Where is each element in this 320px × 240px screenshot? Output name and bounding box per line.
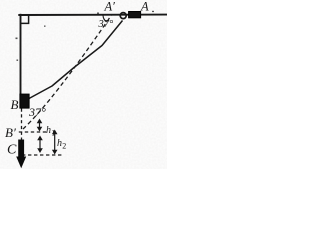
block B bbox=[20, 94, 29, 108]
mid double arrow bbox=[37, 136, 43, 154]
dashed line B' to A' bbox=[23, 15, 112, 129]
block A bbox=[129, 11, 141, 18]
right-angle mark bbox=[21, 16, 29, 24]
svg-text:C: C bbox=[7, 143, 17, 158]
wall dashed line below B bbox=[21, 109, 23, 140]
svg-text:B: B bbox=[11, 97, 19, 112]
solid string B to A bbox=[29, 21, 123, 99]
svg-text:h: h bbox=[46, 125, 51, 136]
svg-text:h: h bbox=[57, 138, 62, 149]
svg-text:A: A bbox=[140, 0, 149, 14]
ceiling horizontal line bbox=[18, 14, 167, 16]
bottom dashed line bbox=[22, 154, 62, 156]
svg-text:B′: B′ bbox=[5, 125, 16, 140]
svg-text:37°: 37° bbox=[28, 105, 46, 119]
B' level dashed line bbox=[19, 131, 49, 133]
C thick arrow bbox=[16, 140, 26, 169]
svg-text:2: 2 bbox=[62, 142, 66, 151]
paper noise bbox=[0, 0, 167, 169]
h2 arrow bbox=[52, 130, 58, 155]
ring at block A bbox=[120, 13, 126, 19]
angle arc at A' bbox=[103, 15, 107, 22]
svg-text:A′: A′ bbox=[104, 0, 116, 14]
wall vertical line bbox=[20, 14, 22, 95]
h1 arrow bbox=[37, 119, 43, 132]
scan speckles bbox=[16, 11, 155, 61]
